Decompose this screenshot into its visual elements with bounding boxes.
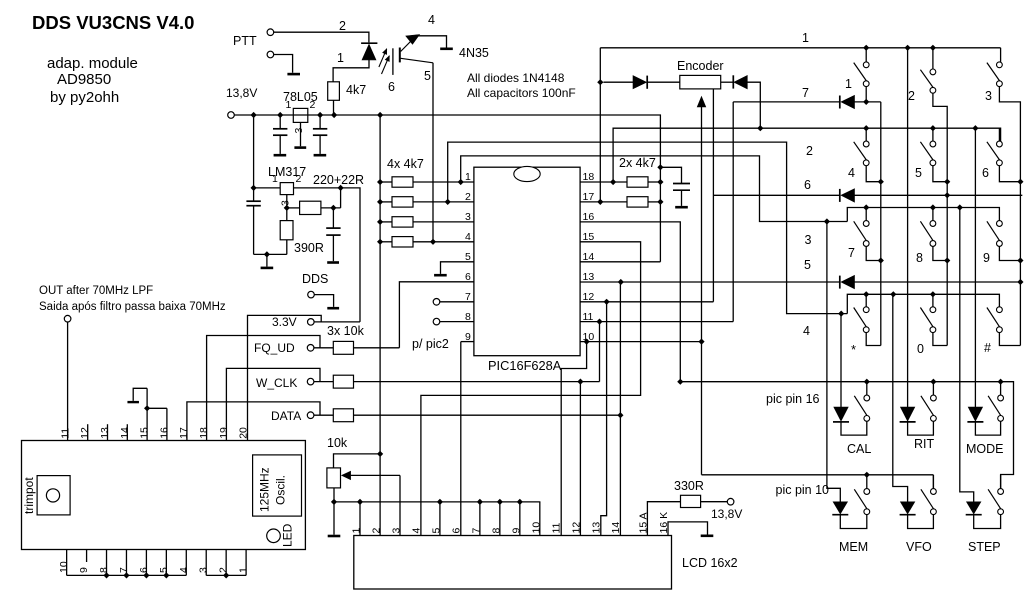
svg-text:14: 14	[119, 427, 131, 439]
svg-text:#: #	[984, 341, 991, 355]
svg-text:3: 3	[465, 211, 471, 223]
svg-text:11: 11	[59, 428, 71, 439]
svg-text:5: 5	[158, 567, 170, 573]
svg-text:9: 9	[78, 567, 90, 573]
svg-text:9: 9	[510, 528, 522, 534]
svg-text:Saida após filtro passa baixa: Saida após filtro passa baixa 70MHz	[39, 301, 226, 313]
svg-text:6: 6	[982, 166, 989, 180]
svg-text:0: 0	[917, 342, 924, 356]
svg-text:MEM: MEM	[839, 540, 868, 554]
svg-text:RIT: RIT	[914, 437, 935, 451]
svg-text:VFO: VFO	[906, 540, 932, 554]
svg-text:2: 2	[370, 528, 382, 534]
svg-text:1: 1	[802, 31, 809, 45]
svg-text:7: 7	[802, 86, 809, 100]
svg-text:adap. module: adap. module	[47, 55, 138, 72]
svg-text:4: 4	[465, 231, 471, 243]
svg-text:3: 3	[198, 567, 210, 573]
svg-text:13: 13	[590, 522, 602, 534]
svg-text:pic pin 10: pic pin 10	[776, 483, 830, 497]
svg-text:LCD 16x2: LCD 16x2	[682, 556, 738, 570]
svg-text:5: 5	[804, 258, 811, 272]
svg-text:p/ pic2: p/ pic2	[412, 337, 449, 351]
svg-text:9: 9	[983, 251, 990, 265]
svg-text:17: 17	[178, 427, 190, 439]
svg-text:All capacitors 100nF: All capacitors 100nF	[467, 86, 576, 100]
svg-text:2: 2	[339, 19, 346, 33]
svg-text:4: 4	[410, 528, 422, 534]
svg-text:16: 16	[158, 427, 170, 439]
svg-text:2: 2	[310, 99, 316, 111]
svg-text:3x 10k: 3x 10k	[327, 324, 365, 338]
svg-text:10k: 10k	[327, 436, 348, 450]
svg-text:1: 1	[465, 171, 471, 183]
svg-text:20: 20	[238, 427, 250, 439]
svg-text:6: 6	[465, 271, 471, 283]
svg-text:220+22R: 220+22R	[313, 173, 364, 187]
svg-text:8: 8	[490, 528, 502, 534]
svg-text:7: 7	[118, 567, 130, 573]
svg-text:6: 6	[388, 80, 395, 94]
svg-text:390R: 390R	[294, 241, 324, 255]
svg-text:Encoder: Encoder	[677, 59, 724, 73]
svg-text:4: 4	[178, 567, 190, 573]
svg-text:13,8V: 13,8V	[226, 86, 257, 100]
svg-text:1: 1	[337, 51, 344, 65]
svg-text:8: 8	[465, 311, 471, 323]
svg-text:2: 2	[908, 89, 915, 103]
svg-text:5: 5	[915, 166, 922, 180]
svg-text:3: 3	[293, 128, 305, 134]
svg-text:4k7: 4k7	[346, 83, 366, 97]
svg-text:5: 5	[465, 251, 471, 263]
svg-text:6: 6	[138, 567, 150, 573]
svg-text:pic pin 16: pic pin 16	[766, 392, 820, 406]
svg-text:AD9850: AD9850	[57, 71, 111, 88]
svg-text:2x 4k7: 2x 4k7	[619, 156, 656, 170]
svg-text:2: 2	[806, 144, 813, 158]
svg-text:3: 3	[985, 89, 992, 103]
svg-text:7: 7	[848, 246, 855, 260]
svg-text:8: 8	[98, 567, 110, 573]
svg-text:12: 12	[570, 522, 582, 534]
svg-text:3: 3	[280, 200, 292, 206]
svg-text:4: 4	[428, 13, 435, 27]
svg-text:MODE: MODE	[966, 442, 1004, 456]
svg-text:330R: 330R	[674, 479, 704, 493]
svg-text:12: 12	[79, 427, 91, 439]
svg-text:by py2ohh: by py2ohh	[50, 89, 119, 106]
svg-text:7: 7	[465, 291, 471, 303]
svg-text:125MHz: 125MHz	[258, 467, 272, 512]
svg-text:1: 1	[351, 528, 363, 534]
svg-text:15: 15	[139, 427, 151, 439]
svg-text:2: 2	[296, 173, 302, 185]
svg-text:13: 13	[99, 427, 111, 439]
svg-text:3: 3	[805, 233, 812, 247]
svg-text:FQ_UD: FQ_UD	[254, 341, 295, 355]
svg-text:DATA: DATA	[271, 409, 301, 423]
svg-text:2: 2	[465, 191, 471, 203]
svg-text:7: 7	[470, 528, 482, 534]
svg-text:6: 6	[450, 528, 462, 534]
svg-text:Oscil.: Oscil.	[274, 475, 288, 505]
svg-text:4N35: 4N35	[459, 46, 489, 60]
svg-text:10: 10	[530, 522, 542, 534]
svg-text:19: 19	[218, 427, 230, 439]
svg-text:18: 18	[198, 427, 210, 439]
svg-text:LED: LED	[281, 523, 295, 547]
svg-text:4x 4k7: 4x 4k7	[387, 157, 424, 171]
svg-text:1: 1	[272, 173, 278, 185]
svg-text:1: 1	[845, 77, 852, 91]
svg-text:W_CLK: W_CLK	[256, 376, 297, 390]
svg-text:STEP: STEP	[968, 540, 1001, 554]
svg-text:All diodes 1N4148: All diodes 1N4148	[467, 71, 565, 85]
svg-text:trimpot: trimpot	[22, 477, 36, 514]
svg-text:4: 4	[803, 324, 810, 338]
svg-text:11: 11	[550, 522, 562, 533]
svg-text:3.3V: 3.3V	[272, 315, 297, 329]
svg-text:1: 1	[238, 567, 250, 573]
svg-text:10: 10	[58, 561, 70, 573]
svg-text:OUT after 70MHz LPF: OUT after 70MHz LPF	[39, 285, 153, 297]
svg-text:DDS: DDS	[302, 272, 328, 286]
svg-text:1: 1	[286, 99, 292, 111]
svg-text:13,8V: 13,8V	[711, 507, 742, 521]
svg-text:*: *	[851, 342, 856, 357]
svg-text:5: 5	[424, 69, 431, 83]
svg-text:DDS VU3CNS V4.0: DDS VU3CNS V4.0	[32, 12, 194, 33]
svg-text:6: 6	[804, 178, 811, 192]
svg-text:PIC16F628A: PIC16F628A	[488, 358, 562, 373]
svg-text:14: 14	[610, 522, 622, 534]
svg-text:PTT: PTT	[233, 34, 257, 48]
svg-text:CAL: CAL	[847, 442, 871, 456]
svg-text:9: 9	[465, 331, 471, 343]
svg-text:4: 4	[848, 166, 855, 180]
svg-text:2: 2	[218, 567, 230, 573]
svg-text:13: 13	[583, 271, 595, 283]
svg-text:5: 5	[430, 528, 442, 534]
svg-text:8: 8	[916, 251, 923, 265]
svg-text:3: 3	[390, 528, 402, 534]
